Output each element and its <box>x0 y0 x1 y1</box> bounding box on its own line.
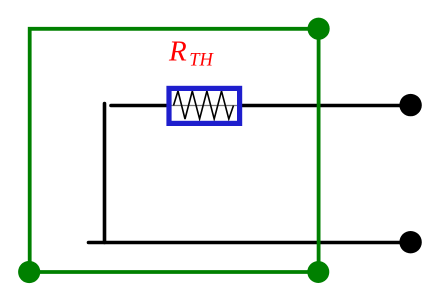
wire <box>241 104 404 108</box>
node: top terminal <box>399 94 421 116</box>
resistor R_TH <box>169 88 240 123</box>
node: green top-right <box>308 18 330 40</box>
node: green bottom-right <box>307 261 329 283</box>
wire <box>103 104 107 243</box>
node: green bottom-left <box>18 261 40 283</box>
wire <box>111 104 167 108</box>
wire: green loop <box>30 29 319 272</box>
wire <box>89 241 405 245</box>
svg-text:RTH: RTH <box>168 36 215 71</box>
node: bottom terminal <box>399 231 421 253</box>
